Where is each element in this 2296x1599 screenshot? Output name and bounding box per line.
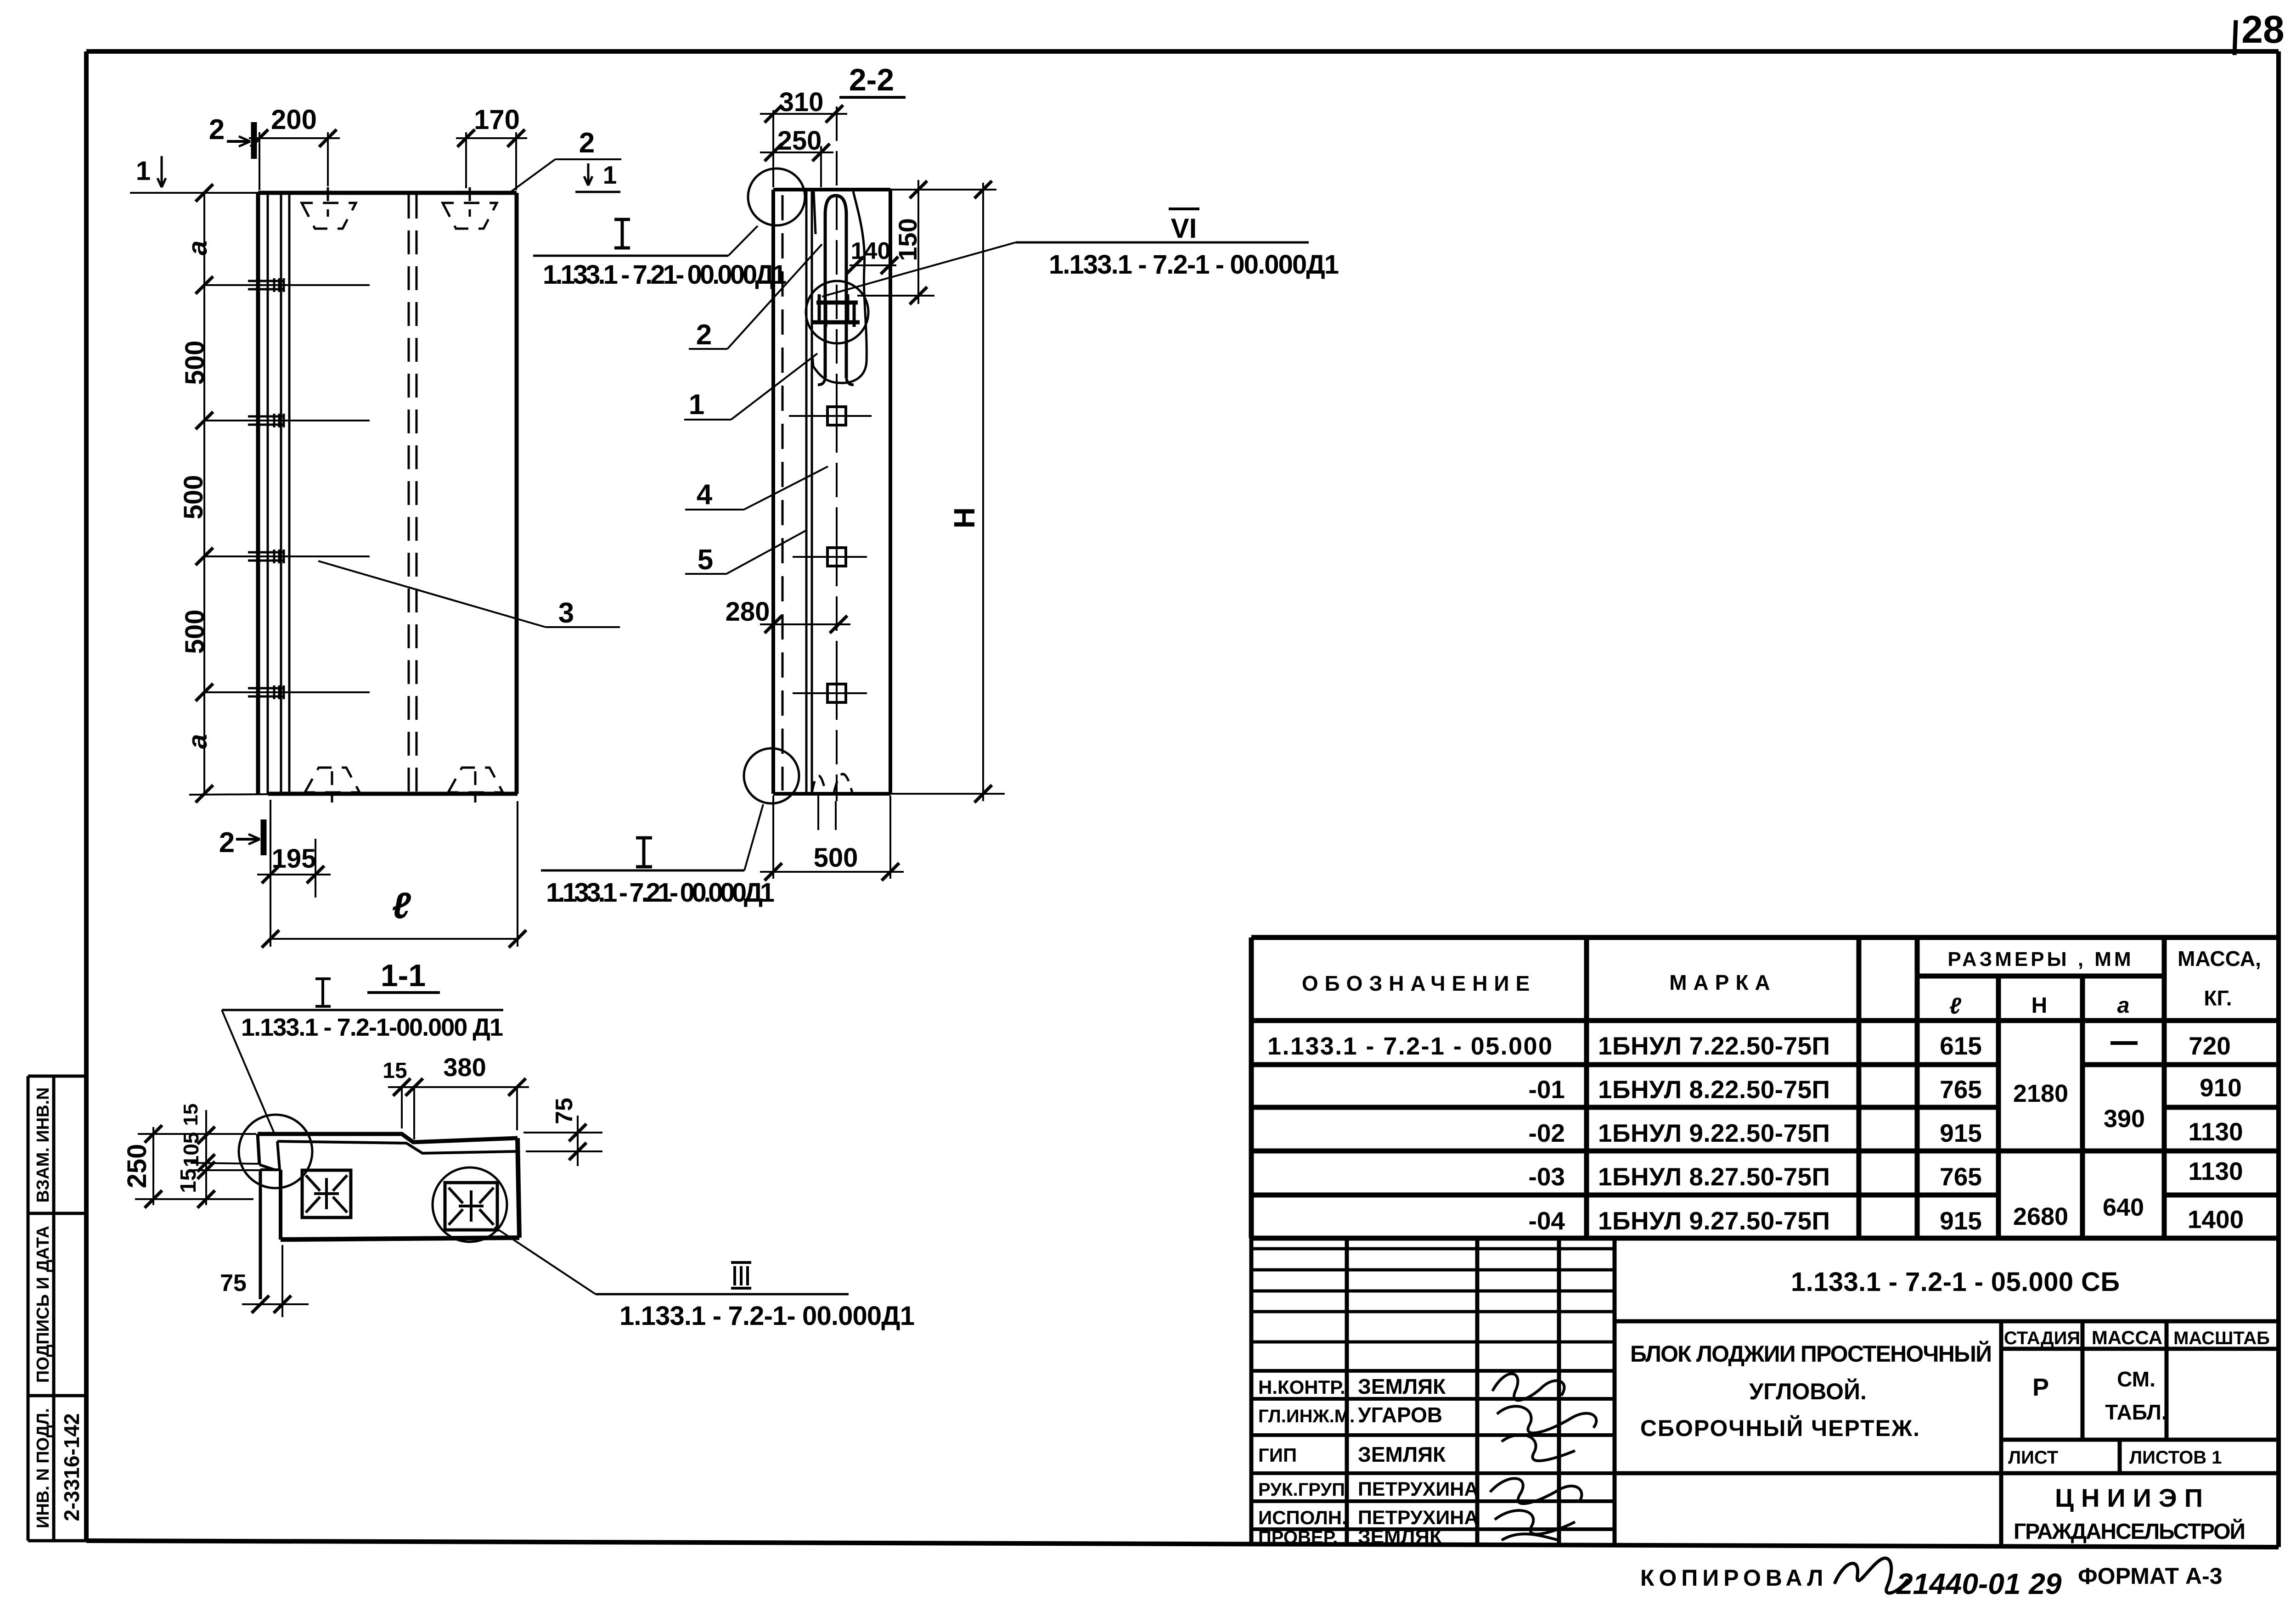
svg-text:1130: 1130 xyxy=(2188,1117,2243,1146)
svg-text:1БНУЛ 8.27.50-75П: 1БНУЛ 8.27.50-75П xyxy=(1598,1162,1830,1191)
svg-text:СМ.: СМ. xyxy=(2117,1367,2155,1391)
detail circle I top xyxy=(748,168,805,225)
inner face double line xyxy=(805,190,808,794)
dim 15 and 380 top xyxy=(401,1087,403,1128)
svg-text:а: а xyxy=(2117,993,2130,1018)
svg-text:СБОРОЧНЫЙ ЧЕРТЕЖ.: СБОРОЧНЫЙ ЧЕРТЕЖ. xyxy=(1640,1415,1919,1441)
blade inner edge with step xyxy=(277,1141,518,1153)
dimension 250 xyxy=(820,146,822,187)
hidden double line xyxy=(409,195,416,794)
svg-text:VI: VI xyxy=(1171,213,1197,244)
left dim extensions xyxy=(135,1134,274,1199)
svg-text:500: 500 xyxy=(180,610,210,654)
svg-text:915: 915 xyxy=(1940,1119,1982,1147)
concrete break outline xyxy=(812,191,867,383)
page number 28 tick xyxy=(2234,20,2236,55)
joint mark 4 xyxy=(204,685,370,699)
svg-text:640: 640 xyxy=(2103,1194,2144,1221)
joint mark 1 xyxy=(204,278,370,292)
svg-text:765: 765 xyxy=(1940,1162,1982,1191)
svg-text:ПРОВЕР.: ПРОВЕР. xyxy=(1258,1527,1338,1548)
svg-text:75: 75 xyxy=(551,1098,578,1124)
loop anchor bars xyxy=(816,301,858,305)
dimension 140 xyxy=(850,264,896,266)
detail callout I top text xyxy=(614,219,630,248)
svg-text:380: 380 xyxy=(443,1053,486,1082)
lifting loop xyxy=(825,196,846,378)
dim 15 105 15 left xyxy=(205,1110,207,1205)
title block small rows xyxy=(1251,1249,1615,1342)
svg-text:ТАБЛ.: ТАБЛ. xyxy=(2105,1400,2167,1424)
svg-text:250: 250 xyxy=(122,1144,152,1189)
svg-text:-03: -03 xyxy=(1529,1162,1565,1191)
svg-text:2-3316-142: 2-3316-142 xyxy=(60,1413,84,1521)
svg-text:ЛИСТ: ЛИСТ xyxy=(2008,1448,2058,1468)
svg-text:ℓ: ℓ xyxy=(392,885,411,926)
svg-text:280: 280 xyxy=(726,597,770,627)
svg-text:Н: Н xyxy=(2032,993,2048,1018)
detail circle I bottom xyxy=(744,748,799,803)
svg-text:28: 28 xyxy=(2241,8,2284,51)
table grid xyxy=(1251,937,2278,1238)
svg-text:Н.КОНТР.: Н.КОНТР. xyxy=(1258,1376,1345,1398)
svg-text:ГИП: ГИП xyxy=(1258,1444,1297,1466)
svg-text:21440-01 29: 21440-01 29 xyxy=(1896,1567,2062,1599)
svg-text:1130: 1130 xyxy=(2188,1157,2243,1185)
svg-text:765: 765 xyxy=(1940,1075,1982,1104)
svg-text:-01: -01 xyxy=(1529,1075,1565,1104)
dimension L overall xyxy=(517,801,518,947)
svg-text:РУК.ГРУП.: РУК.ГРУП. xyxy=(1258,1480,1350,1500)
title block name rows xyxy=(1251,1371,1615,1529)
hidden line xyxy=(782,195,784,791)
left dimension chain line xyxy=(203,193,205,794)
dimension 200 xyxy=(249,137,340,139)
svg-text:1БНУЛ 9.27.50-75П: 1БНУЛ 9.27.50-75П xyxy=(1598,1206,1830,1235)
svg-text:ОБОЗНАЧЕНИЕ: ОБОЗНАЧЕНИЕ xyxy=(1302,971,1536,995)
section mark 1 arrow right xyxy=(587,163,590,185)
left margin stamp boxes xyxy=(28,1076,88,1541)
svg-text:ФОРМАТ А-3: ФОРМАТ А-3 xyxy=(2078,1563,2223,1589)
joint mark 3 xyxy=(204,550,370,563)
svg-text:3: 3 xyxy=(558,597,574,629)
embedded plate square 2 xyxy=(827,548,846,566)
svg-text:ЛИСТОВ 1: ЛИСТОВ 1 xyxy=(2129,1448,2222,1468)
svg-text:1400: 1400 xyxy=(2188,1205,2244,1234)
svg-text:1: 1 xyxy=(603,161,617,189)
label 3 callout xyxy=(318,561,546,627)
joint mark 2 xyxy=(204,414,370,427)
anchor plate 2 xyxy=(445,1183,497,1230)
top dim extensions xyxy=(259,132,516,190)
detail circle plate xyxy=(433,1167,507,1242)
svg-text:2: 2 xyxy=(219,827,235,858)
svg-text:500: 500 xyxy=(180,341,210,385)
section mark 2 top xyxy=(251,122,257,159)
svg-text:500: 500 xyxy=(179,475,208,520)
svg-text:БЛОК ЛОДЖИИ ПРОСТЕНОЧНЫЙ: БЛОК ЛОДЖИИ ПРОСТЕНОЧНЫЙ xyxy=(1630,1341,1992,1367)
svg-text:ВЗАМ. ИНВ.N: ВЗАМ. ИНВ.N xyxy=(34,1087,53,1202)
svg-text:ℓ: ℓ xyxy=(1949,993,1962,1019)
bottom edge extension left xyxy=(189,794,268,795)
svg-text:МАСШТАБ: МАСШТАБ xyxy=(2173,1328,2270,1348)
detail callout III xyxy=(495,1227,596,1294)
svg-text:615: 615 xyxy=(1940,1032,1982,1060)
svg-text:1БНУЛ 7.22.50-75П: 1БНУЛ 7.22.50-75П xyxy=(1598,1032,1830,1060)
svg-text:150: 150 xyxy=(893,218,922,261)
section mark 2 bottom xyxy=(261,819,267,855)
svg-text:ИНВ. N ПОДЛ.: ИНВ. N ПОДЛ. xyxy=(34,1408,53,1528)
dim 195 extensions xyxy=(270,800,271,947)
svg-text:2-2: 2-2 xyxy=(849,62,894,97)
section outline xyxy=(773,190,890,794)
embedded plate square 1 xyxy=(827,407,846,425)
svg-text:250: 250 xyxy=(777,126,822,156)
top recess 2 (dashed trapezoid) xyxy=(443,203,497,229)
svg-text:1.133.1 - 7.2-1 - 05.000 СБ: 1.133.1 - 7.2-1 - 05.000 СБ xyxy=(1791,1267,2120,1297)
svg-text:4: 4 xyxy=(697,479,713,511)
svg-text:1БНУЛ 9.22.50-75П: 1БНУЛ 9.22.50-75П xyxy=(1598,1119,1830,1147)
svg-text:МАРКА: МАРКА xyxy=(1669,971,1777,994)
svg-text:1.133.1 - 7.21- 00.000Д1: 1.133.1 - 7.21- 00.000Д1 xyxy=(546,878,775,908)
svg-text:МАССА: МАССА xyxy=(2092,1327,2162,1348)
corner notch xyxy=(258,1134,259,1165)
dimension 150 xyxy=(890,189,996,191)
svg-text:1.133.1 - 7.2-1-00.000 Д1: 1.133.1 - 7.2-1-00.000 Д1 xyxy=(241,1014,503,1041)
svg-text:РАЗМЕРЫ , ММ: РАЗМЕРЫ , ММ xyxy=(1947,948,2133,971)
svg-text:1.133.1 - 7.2-1 - 05.000: 1.133.1 - 7.2-1 - 05.000 xyxy=(1267,1032,1552,1060)
svg-text:915: 915 xyxy=(1940,1206,1982,1235)
signatures scribble 2 xyxy=(1490,1478,1581,1540)
svg-text:H: H xyxy=(948,507,981,528)
top edge extension left xyxy=(130,192,258,194)
panel inner edge lines xyxy=(268,193,289,794)
svg-text:1: 1 xyxy=(136,156,151,186)
svg-text:ЗЕМЛЯК: ЗЕМЛЯК xyxy=(1358,1526,1442,1548)
svg-text:ЦНИИЭП: ЦНИИЭП xyxy=(2055,1483,2210,1512)
svg-text:310: 310 xyxy=(779,87,824,117)
svg-text:200: 200 xyxy=(271,104,317,135)
svg-text:УГАРОВ: УГАРОВ xyxy=(1358,1403,1442,1427)
svg-text:КГ.: КГ. xyxy=(2204,986,2232,1010)
kopiroval signature xyxy=(1835,1558,1908,1593)
embedded plate square 3 xyxy=(827,684,846,702)
svg-text:КОПИРОВАЛ: КОПИРОВАЛ xyxy=(1640,1565,1828,1591)
top recess 1 (dashed trapezoid) xyxy=(302,203,356,229)
svg-text:75: 75 xyxy=(220,1270,247,1296)
svg-text:140: 140 xyxy=(851,238,891,264)
detail callout I top text xyxy=(315,979,331,1006)
dimension 310 xyxy=(772,110,774,187)
dim 250 left xyxy=(152,1127,154,1205)
svg-text:ГРАЖДАНСЕЛЬСТРОЙ: ГРАЖДАНСЕЛЬСТРОЙ xyxy=(2014,1519,2245,1544)
svg-text:СТАДИЯ: СТАДИЯ xyxy=(2004,1328,2080,1348)
dimension 280 xyxy=(760,623,850,625)
bottom recess 2 (dashed trapezoid) xyxy=(448,768,503,792)
svg-text:ЗЕМЛЯК: ЗЕМЛЯК xyxy=(1358,1375,1446,1398)
callout 2 leader to recess xyxy=(509,159,555,193)
svg-text:105: 105 xyxy=(179,1132,203,1167)
signatures scribble 1 xyxy=(1492,1374,1596,1461)
svg-text:2: 2 xyxy=(209,114,225,146)
bottom recess 1 (dashed trapezoid) xyxy=(305,768,360,792)
panel outline xyxy=(258,193,518,794)
svg-text:-02: -02 xyxy=(1529,1119,1565,1147)
dimension 500 xyxy=(772,796,774,879)
bottom break dashes xyxy=(812,776,826,793)
anchor plate 1 xyxy=(302,1170,351,1217)
svg-text:1.133.1 - 7.2-1 - 00.000Д1: 1.133.1 - 7.2-1 - 00.000Д1 xyxy=(1049,250,1339,280)
svg-text:170: 170 xyxy=(474,104,520,135)
svg-text:a: a xyxy=(183,734,213,749)
svg-text:УГЛОВОЙ.: УГЛОВОЙ. xyxy=(1749,1378,1867,1404)
svg-text:1БНУЛ 8.22.50-75П: 1БНУЛ 8.22.50-75П xyxy=(1598,1075,1830,1104)
svg-text:Р: Р xyxy=(2032,1374,2049,1401)
svg-text:2: 2 xyxy=(696,319,712,351)
dimension H xyxy=(982,183,984,801)
svg-text:1.133.1 - 7.2-1- 00.000Д1: 1.133.1 - 7.2-1- 00.000Д1 xyxy=(619,1301,915,1331)
svg-text:ПОДПИСЬ И ДАТА: ПОДПИСЬ И ДАТА xyxy=(34,1226,53,1383)
title block grid xyxy=(1251,1238,2278,1545)
svg-text:-04: -04 xyxy=(1529,1206,1565,1235)
detail circle corner xyxy=(239,1115,312,1188)
svg-text:195: 195 xyxy=(272,844,316,874)
svg-text:15: 15 xyxy=(180,1104,202,1126)
svg-text:2680: 2680 xyxy=(2013,1203,2068,1230)
svg-text:ИСПОЛН.: ИСПОЛН. xyxy=(1258,1507,1347,1528)
svg-text:ЗЕМЛЯК: ЗЕМЛЯК xyxy=(1358,1442,1446,1466)
corner panel plan outline xyxy=(258,1134,518,1142)
svg-text:2: 2 xyxy=(579,127,595,159)
dim 75 right xyxy=(523,1132,602,1133)
svg-text:1.133.1 - 7.21- 00.000Д1: 1.133.1 - 7.21- 00.000Д1 xyxy=(543,260,787,290)
axis centerline xyxy=(836,107,838,801)
svg-text:15: 15 xyxy=(383,1059,407,1083)
dim 75 bottom xyxy=(242,1303,309,1305)
svg-text:1: 1 xyxy=(689,389,704,421)
svg-text:5: 5 xyxy=(698,544,713,576)
svg-text:ГЛ.ИНЖ.М.: ГЛ.ИНЖ.М. xyxy=(1258,1406,1355,1426)
svg-text:720: 720 xyxy=(2189,1032,2231,1060)
detail callout I bottom text xyxy=(636,838,652,867)
svg-text:1-1: 1-1 xyxy=(381,958,426,993)
perpendicular wall edge xyxy=(259,1170,262,1299)
svg-text:a: a xyxy=(183,241,213,255)
svg-text:910: 910 xyxy=(2200,1073,2242,1102)
dimension 170 xyxy=(456,137,527,139)
svg-text:2180: 2180 xyxy=(2013,1080,2068,1107)
svg-text:15: 15 xyxy=(176,1168,201,1193)
svg-text:МАССА,: МАССА, xyxy=(2178,947,2261,971)
svg-text:390: 390 xyxy=(2104,1105,2145,1133)
svg-text:500: 500 xyxy=(814,843,858,873)
detail circle VI xyxy=(806,281,868,343)
svg-text:ПЕТРУХИНА: ПЕТРУХИНА xyxy=(1358,1478,1478,1500)
dimension 195 xyxy=(257,874,331,875)
